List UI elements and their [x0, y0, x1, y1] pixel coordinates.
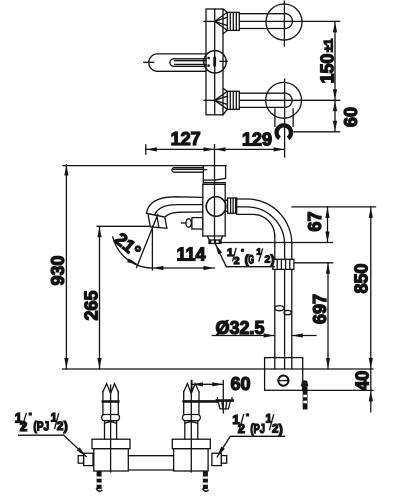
dimension 127 / 129 (top of front view)	[146, 145, 285, 244]
faucet head (front view)	[203, 166, 225, 185]
left hanger pin (bottom view)	[97, 472, 102, 492]
angle 21 degrees	[113, 215, 158, 271]
svg-text:1: 1	[227, 247, 233, 259]
dimension 930 (left)	[64, 165, 68, 370]
bottom wall flange circle	[266, 79, 302, 157]
block bottom reference line	[303, 389, 373, 391]
aerator tip (front view)	[148, 214, 167, 229]
svg-text:2: 2	[20, 419, 28, 434]
svg-text:60: 60	[231, 374, 251, 394]
right outlet nut (front view)	[225, 198, 237, 213]
left eccentric valve block (bottom view)	[92, 439, 130, 471]
mounting reference line	[63, 368, 374, 370]
svg-text:850: 850	[352, 263, 372, 293]
svg-text:21°: 21°	[111, 229, 145, 262]
svg-text:2: 2	[272, 423, 278, 435]
horseshoe bend (downpipe elbow from top)	[277, 125, 291, 138]
svg-text:150: 150	[317, 53, 337, 83]
dimension 850 (far right)	[369, 207, 373, 369]
centerlines (bottom view)	[111, 381, 192, 473]
svg-text:): )	[64, 419, 68, 433]
wall hanger pin (side view)	[301, 380, 308, 409]
svg-text:±1: ±1	[322, 38, 336, 52]
svg-text:40: 40	[353, 371, 373, 391]
label 1/2"(PJ1/2) left	[15, 411, 87, 457]
svg-text:(PJ: (PJ	[33, 419, 49, 433]
right hex connector PJ1/2	[212, 453, 227, 465]
svg-text:265: 265	[82, 290, 102, 320]
svg-text:114: 114	[176, 245, 205, 265]
bottom fitting / G1/2 thread under body	[207, 236, 223, 243]
wall elbow downpipe (seen from top)	[275, 109, 293, 126]
wall elbow block (side view, bottom right)	[265, 358, 303, 391]
svg-text:2: 2	[234, 255, 240, 267]
faucet body (front view)	[203, 184, 225, 236]
dimension 67 (right)	[221, 207, 376, 243]
dimension 265 (left)	[97, 226, 149, 369]
seal cone accessory (bottom view)	[217, 398, 233, 409]
dimension 114	[152, 266, 214, 270]
svg-text:): )	[271, 253, 275, 267]
svg-text:Ø32.5: Ø32.5	[216, 318, 265, 338]
label 1/2"(PJ1/2) right	[217, 412, 284, 457]
svg-text:60: 60	[341, 107, 361, 127]
lever handle (front view)	[172, 168, 207, 173]
left supply pipe (bottom view)	[102, 384, 120, 440]
centre connecting bar (bottom view)	[128, 456, 173, 470]
dimension 60 (right of top view)	[294, 100, 340, 132]
dimension 40 (bottom right)	[369, 369, 373, 412]
right pipe with bend (front view)	[237, 199, 292, 358]
svg-text:930: 930	[48, 255, 68, 285]
svg-text:129: 129	[242, 129, 272, 149]
check valve screw (front view)	[182, 218, 203, 229]
cartridge ball joint circle (front view)	[206, 197, 226, 217]
right hanger pin (bottom view)	[203, 472, 208, 492]
svg-text:(PJ: (PJ	[250, 422, 265, 436]
G1/2 union nut on down pipe	[273, 259, 294, 269]
svg-text:2: 2	[238, 421, 245, 436]
dimension 150±1 (right of top view)	[240, 21, 340, 131]
top wall flange circle	[266, 1, 302, 46]
elbow screw	[278, 376, 288, 386]
label 1/2"(G1/2)	[215, 244, 274, 268]
right eccentric valve block (bottom view)	[172, 439, 210, 471]
svg-text:): )	[279, 423, 283, 437]
top inlet pipe (top view)	[204, 9, 292, 34]
body column (top view)	[206, 9, 223, 115]
label Ø32.5 with leaders	[212, 333, 316, 337]
lever handle (top view)	[144, 54, 206, 71]
svg-text:2: 2	[57, 421, 63, 433]
cartridge circle (top view)	[204, 51, 228, 73]
dimension 697 (right)	[294, 263, 333, 369]
svg-text:67: 67	[305, 211, 325, 231]
svg-text:697: 697	[310, 294, 330, 324]
spout (front view)	[147, 197, 203, 217]
svg-text:G: G	[248, 253, 254, 267]
right supply pipe (bottom view)	[183, 384, 219, 440]
dimension 60 (bottom view)	[192, 381, 223, 414]
telescopic union joint on down pipe	[275, 306, 292, 315]
bottom inlet pipe (top view)	[204, 88, 292, 115]
930 extension line / lever top line	[63, 165, 226, 167]
left hex connector PJ1/2	[78, 453, 93, 465]
svg-text:127: 127	[171, 129, 201, 149]
